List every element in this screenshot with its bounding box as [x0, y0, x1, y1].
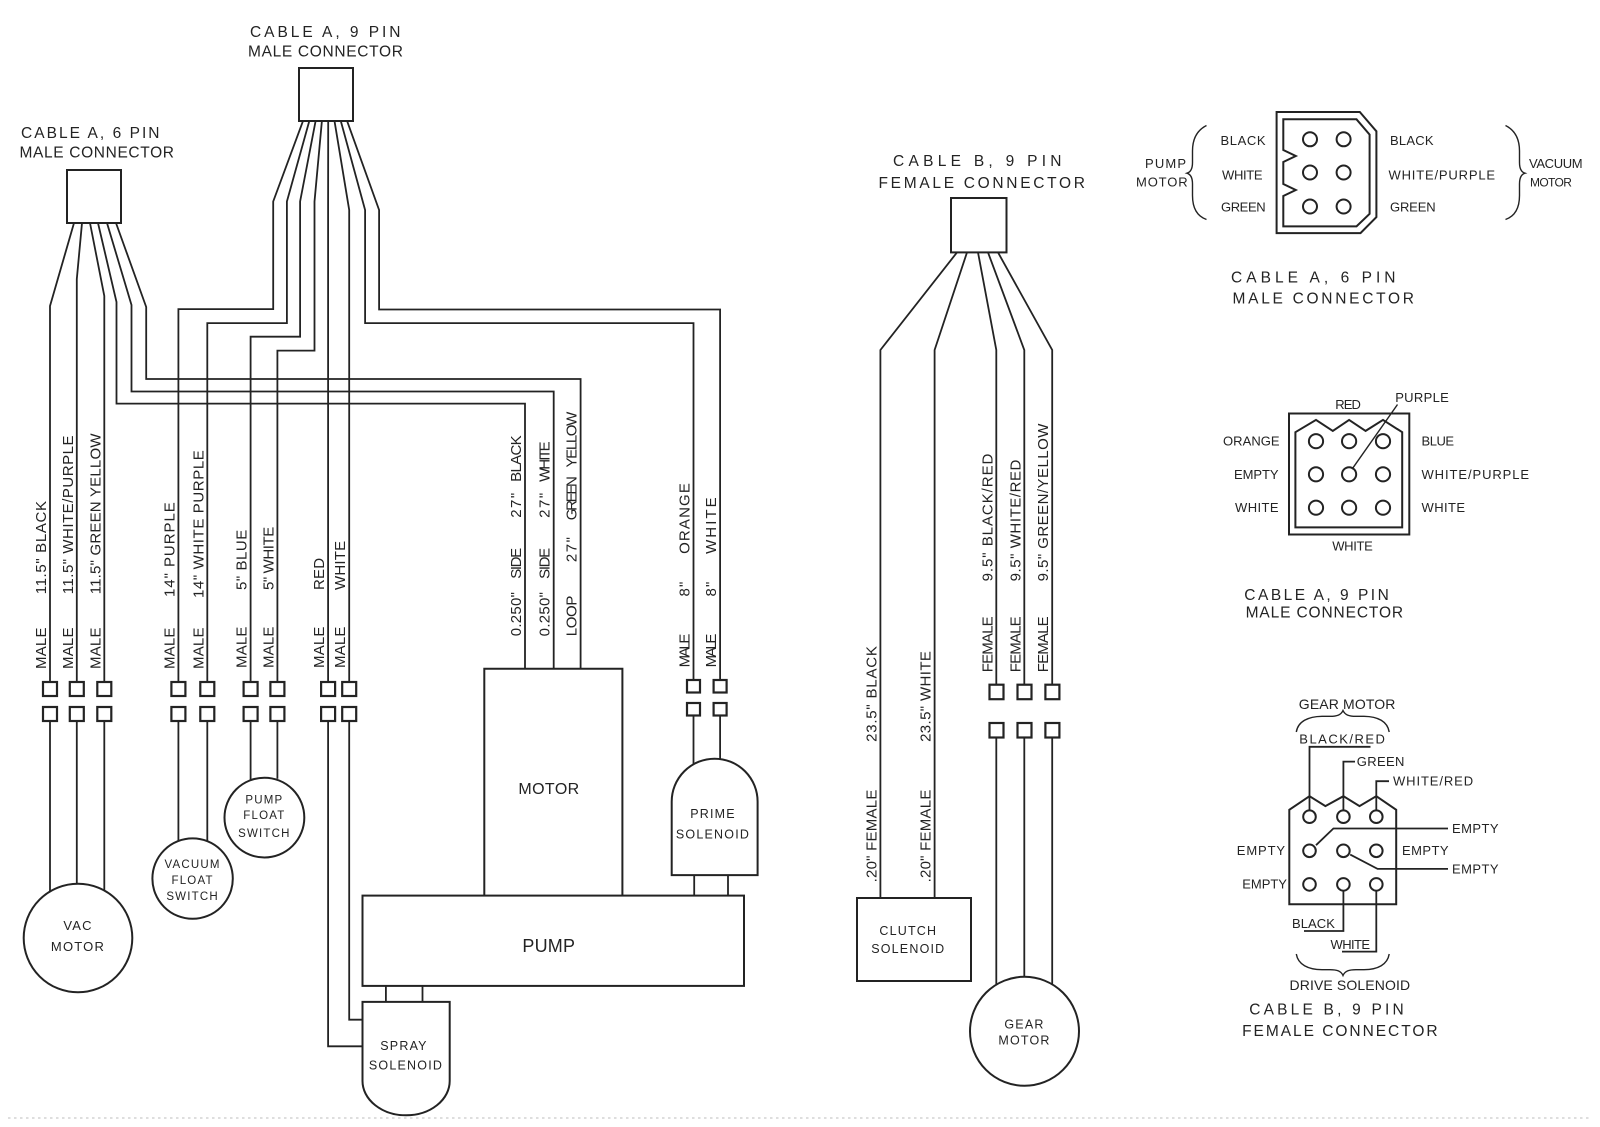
- pin C2: [1337, 810, 1350, 823]
- wire 14" WHITE PURPLE (J2 to VACUUM FLOAT SWITCH): [190, 121, 309, 841]
- connector J3: Cable B 9-pin female (plug symbol): [951, 198, 1007, 252]
- svg-text:MALE: MALE: [60, 627, 77, 669]
- wire WHITE (J2 to SPRAY SOLENOID): [332, 121, 362, 1020]
- svg-text:PUMP: PUMP: [522, 936, 575, 956]
- svg-text:.20" FEMALE: .20" FEMALE: [918, 788, 935, 882]
- svg-text:11.5" BLACK: 11.5" BLACK: [33, 500, 50, 595]
- stub wires PUMP to SPRAY SOLENOID: [386, 986, 423, 1002]
- svg-text:9.5" BLACK/RED: 9.5" BLACK/RED: [979, 452, 996, 581]
- GEAR MOTOR (circle): [970, 977, 1079, 1086]
- svg-text:BLACK: BLACK: [1221, 133, 1268, 148]
- right pin labels: [1389, 133, 1497, 215]
- pin B3: [1376, 434, 1390, 448]
- pin B1: [1309, 434, 1323, 448]
- svg-text:RED: RED: [311, 558, 328, 590]
- brace gear motor group (points up): [1296, 711, 1389, 733]
- pin C6: [1370, 845, 1383, 858]
- wire from J1 to MOTOR LOOP 27" GREEN YELLOW: [116, 223, 581, 669]
- svg-text:BLACK: BLACK: [1390, 133, 1435, 148]
- stub wires PRIME SOLENOID to PUMP: [694, 875, 728, 896]
- pin B9: [1376, 501, 1390, 515]
- pin B8: [1342, 501, 1356, 515]
- svg-text:WHITE: WHITE: [1422, 500, 1467, 515]
- svg-text:WHITE: WHITE: [332, 541, 349, 590]
- svg-text:PUMP: PUMP: [1145, 156, 1188, 171]
- caption: CABLE B 9 PIN FEMALE CONNECTOR: [1242, 1002, 1439, 1041]
- svg-text:WHITE: WHITE: [703, 497, 720, 554]
- svg-text:SIDE: SIDE: [508, 548, 525, 579]
- svg-text:23.5" BLACK: 23.5" BLACK: [863, 645, 880, 742]
- svg-text:BLUE: BLUE: [1422, 434, 1456, 449]
- title: CABLE B 9 PIN FEMALE CONNECTOR: [879, 153, 1087, 192]
- svg-text:MALE: MALE: [332, 626, 349, 668]
- right pin labels: [1422, 434, 1531, 516]
- svg-text:FLOAT: FLOAT: [243, 810, 285, 822]
- VAC MOTOR (circle): [24, 884, 133, 993]
- svg-text:EMPTY: EMPTY: [1402, 843, 1450, 858]
- svg-text:MALE: MALE: [234, 626, 251, 668]
- svg-text:5" WHITE: 5" WHITE: [260, 526, 277, 591]
- svg-text:MALE: MALE: [260, 626, 277, 668]
- svg-text:8": 8": [677, 581, 694, 597]
- svg-text:WHITE/RED: WHITE/RED: [1393, 774, 1475, 789]
- svg-text:27": 27": [508, 493, 525, 518]
- svg-text:9.5" WHITE/RED: 9.5" WHITE/RED: [1007, 458, 1024, 581]
- SPRAY SOLENOID (dome): [363, 1002, 450, 1115]
- svg-text:WHITE/PURPLE: WHITE/PURPLE: [1389, 168, 1497, 183]
- svg-text:CABLE B, 9 PIN: CABLE B, 9 PIN: [893, 153, 1063, 170]
- svg-text:14" PURPLE: 14" PURPLE: [161, 501, 178, 597]
- svg-text:CABLE A, 9 PIN: CABLE A, 9 PIN: [1244, 587, 1390, 604]
- svg-text:CABLE A, 6 PIN: CABLE A, 6 PIN: [21, 125, 161, 142]
- svg-text:WHITE: WHITE: [537, 441, 554, 482]
- wire BLACK/RED to pin C1: [1299, 732, 1386, 811]
- wire WHITE/RED to pin C3: [1376, 774, 1474, 811]
- svg-text:DRIVE SOLENOID: DRIVE SOLENOID: [1290, 977, 1412, 993]
- svg-text:VAC: VAC: [63, 918, 92, 933]
- pin B4: [1309, 467, 1323, 481]
- pin A4: [1337, 166, 1351, 180]
- connector body outline (inner with zigzag key edge): [1295, 420, 1402, 528]
- svg-text:FEMALE: FEMALE: [1007, 615, 1024, 672]
- svg-text:BLACK: BLACK: [508, 435, 525, 482]
- wire 14" PURPLE (J2 to VACUUM FLOAT SWITCH): [161, 121, 303, 841]
- svg-text:GEAR MOTOR: GEAR MOTOR: [1299, 696, 1397, 712]
- label PUMP MOTOR: [1136, 156, 1189, 190]
- svg-text:CABLE A, 6 PIN: CABLE A, 6 PIN: [1231, 270, 1397, 287]
- left pin labels: [1221, 133, 1268, 215]
- pin C4: [1303, 845, 1316, 858]
- brace vacuum motor group: [1506, 126, 1526, 220]
- svg-text:SIDE: SIDE: [537, 548, 554, 579]
- svg-text:BLACK/RED: BLACK/RED: [1299, 732, 1386, 747]
- PUMP (box): [363, 896, 745, 986]
- wire RED (J2 to SPRAY SOLENOID): [311, 121, 362, 1046]
- pin C9: [1370, 878, 1383, 891]
- svg-text:MALE CONNECTOR: MALE CONNECTOR: [248, 44, 405, 61]
- svg-text:GREEN: GREEN: [564, 476, 581, 520]
- pin B7: [1309, 501, 1323, 515]
- wire from J1 to MOTOR 0.250" SIDE 27" WHITE: [107, 223, 554, 669]
- wire 23.5" WHITE (J3 to CLUTCH SOLENOID): [918, 252, 967, 898]
- svg-text:MALE CONNECTOR: MALE CONNECTOR: [20, 145, 176, 162]
- svg-text:GREEN: GREEN: [1357, 754, 1406, 769]
- svg-text:BLACK: BLACK: [1292, 916, 1336, 931]
- wire from J1 to MOTOR 0.250" SIDE 27" BLACK: [98, 223, 525, 669]
- svg-text:EMPTY: EMPTY: [1452, 821, 1500, 836]
- caption: CABLE A 6 PIN MALE CONNECTOR: [1231, 270, 1416, 308]
- svg-text:WHITE: WHITE: [1222, 168, 1264, 183]
- svg-text:MOTOR: MOTOR: [1136, 175, 1189, 190]
- pin C5: [1337, 845, 1350, 858]
- leader EMPTY from pin C4: [1316, 821, 1500, 845]
- svg-text:5" BLUE: 5" BLUE: [234, 529, 251, 591]
- svg-text:MALE CONNECTOR: MALE CONNECTOR: [1233, 291, 1416, 308]
- wire 9.5" BLACK/RED (J3 to GEAR MOTOR): [978, 252, 1004, 984]
- svg-text:9.5" GREEN/YELLOW: 9.5" GREEN/YELLOW: [1035, 422, 1052, 581]
- svg-text:VACUUM: VACUUM: [1529, 156, 1584, 171]
- pin B5: [1342, 467, 1356, 481]
- svg-text:MOTOR: MOTOR: [51, 939, 105, 954]
- svg-text:11.5" WHITE/PURPLE: 11.5" WHITE/PURPLE: [60, 434, 77, 594]
- wire 8" WHITE (J2 to PRIME SOLENOID): [347, 121, 726, 760]
- wire 9.5" WHITE/RED (J3 to GEAR MOTOR): [988, 252, 1032, 976]
- svg-text:PUMP: PUMP: [245, 795, 283, 807]
- svg-text:11.5" GREEN YELLOW: 11.5" GREEN YELLOW: [87, 432, 104, 594]
- pin C3: [1370, 810, 1383, 823]
- title: CABLE A 6 PIN MALE CONNECTOR: [20, 125, 176, 162]
- svg-text:WHITE/PURPLE: WHITE/PURPLE: [1422, 467, 1531, 482]
- svg-text:14" WHITE PURPLE: 14" WHITE PURPLE: [190, 449, 207, 598]
- svg-text:MALE: MALE: [33, 627, 50, 669]
- wire 11.5" WHITE/PURPLE (J1 to VAC MOTOR): [60, 223, 84, 885]
- svg-text:FEMALE: FEMALE: [979, 615, 996, 672]
- svg-text:EMPTY: EMPTY: [1234, 467, 1280, 482]
- svg-text:RED: RED: [1335, 397, 1362, 412]
- svg-text:EMPTY: EMPTY: [1237, 843, 1287, 858]
- wire 11.5" BLACK (J1 to VAC MOTOR): [33, 223, 74, 892]
- connector body outline (outer): [1289, 414, 1409, 535]
- svg-text:PRIME: PRIME: [690, 807, 736, 821]
- brace drive solenoid group (points down): [1296, 954, 1389, 976]
- pin A1: [1303, 132, 1317, 146]
- wire GREEN to pin C2: [1343, 754, 1405, 811]
- svg-text:CABLE A, 9 PIN: CABLE A, 9 PIN: [250, 24, 402, 41]
- left pin labels: [1223, 434, 1281, 516]
- wire 8" ORANGE (J2 to PRIME SOLENOID): [341, 121, 700, 764]
- svg-text:FEMALE CONNECTOR: FEMALE CONNECTOR: [879, 175, 1087, 192]
- connector J1: Cable A 6-pin male (plug symbol): [67, 170, 121, 223]
- svg-text:MALE: MALE: [87, 627, 104, 669]
- svg-text:EMPTY: EMPTY: [1452, 861, 1500, 876]
- svg-text:0.250": 0.250": [537, 591, 554, 637]
- svg-text:SOLENOID: SOLENOID: [676, 828, 750, 842]
- title: CABLE A 9 PIN MALE CONNECTOR: [248, 24, 405, 61]
- leader EMPTY from pin C5: [1350, 855, 1500, 877]
- svg-text:EMPTY: EMPTY: [1242, 877, 1288, 892]
- svg-text:CABLE B, 9 PIN: CABLE B, 9 PIN: [1249, 1002, 1405, 1019]
- caption: CABLE A 9 PIN MALE CONNECTOR: [1244, 587, 1404, 622]
- svg-text:VACUUM: VACUUM: [165, 859, 221, 871]
- pin C1: [1303, 810, 1316, 823]
- connector body outline (inner with key notches): [1283, 119, 1369, 226]
- pin C8: [1337, 878, 1350, 891]
- svg-text:WHITE: WHITE: [1235, 500, 1280, 515]
- svg-text:SWITCH: SWITCH: [238, 828, 291, 840]
- wire 5" WHITE (J2 to PUMP FLOAT SWITCH): [260, 121, 322, 779]
- svg-text:SOLENOID: SOLENOID: [871, 942, 945, 956]
- pin A6: [1337, 200, 1351, 214]
- svg-text:WHITE: WHITE: [1331, 937, 1372, 952]
- svg-text:LOOP: LOOP: [564, 594, 581, 636]
- connector J2: Cable A 9-pin male (plug symbol): [299, 68, 353, 121]
- label VACUUM MOTOR: [1529, 156, 1584, 190]
- MOTOR (box): [484, 669, 622, 896]
- svg-text:27": 27": [564, 537, 581, 562]
- svg-text:CLUTCH: CLUTCH: [879, 924, 937, 938]
- wire 9.5" GREEN/YELLOW (J3 to GEAR MOTOR): [998, 252, 1059, 984]
- svg-text:MALE: MALE: [311, 626, 328, 668]
- svg-text:FLOAT: FLOAT: [171, 875, 213, 887]
- svg-text:MALE CONNECTOR: MALE CONNECTOR: [1246, 605, 1405, 622]
- pin B6: [1376, 467, 1390, 481]
- PUMP FLOAT SWITCH (circle): [225, 778, 305, 858]
- svg-text:SOLENOID: SOLENOID: [369, 1059, 443, 1073]
- svg-text:PURPLE: PURPLE: [1395, 390, 1450, 405]
- svg-text:8": 8": [703, 581, 720, 597]
- pin A2: [1337, 132, 1351, 146]
- brace pump motor group: [1187, 126, 1207, 220]
- svg-text:MALE: MALE: [703, 632, 720, 667]
- svg-text:FEMALE: FEMALE: [1035, 615, 1052, 672]
- svg-text:.20" FEMALE: .20" FEMALE: [863, 788, 880, 882]
- svg-text:MOTOR: MOTOR: [998, 1034, 1050, 1048]
- PRIME SOLENOID (dome): [672, 759, 758, 875]
- svg-text:YELLOW: YELLOW: [564, 411, 581, 468]
- svg-text:MALE: MALE: [190, 627, 207, 669]
- wire 23.5" BLACK (J3 to CLUTCH SOLENOID): [863, 252, 957, 898]
- wire BLACK from pin C8: [1292, 891, 1343, 931]
- svg-text:0.250": 0.250": [508, 591, 525, 637]
- svg-text:SPRAY: SPRAY: [380, 1039, 427, 1053]
- svg-text:SWITCH: SWITCH: [166, 891, 219, 903]
- VACUUM FLOAT SWITCH (circle): [152, 838, 232, 918]
- wire WHITE from pin C9: [1331, 891, 1377, 952]
- connector body outline with zigzag top: [1289, 796, 1396, 904]
- pin A5: [1303, 200, 1317, 214]
- svg-text:ORANGE: ORANGE: [677, 483, 694, 554]
- pin B2: [1342, 434, 1356, 448]
- label PURPLE with leader line to center pin: [1352, 390, 1450, 469]
- svg-text:WHITE: WHITE: [1332, 539, 1374, 554]
- wire 11.5" GREEN YELLOW (J1 to VAC MOTOR): [87, 223, 111, 890]
- svg-text:MOTOR: MOTOR: [518, 781, 579, 798]
- pin C7: [1303, 878, 1316, 891]
- svg-text:FEMALE CONNECTOR: FEMALE CONNECTOR: [1242, 1023, 1439, 1040]
- connector body outline (outer): [1277, 112, 1377, 233]
- svg-text:23.5" WHITE: 23.5" WHITE: [918, 650, 935, 742]
- wire 5" BLUE (J2 to PUMP FLOAT SWITCH): [234, 121, 316, 780]
- svg-text:GREEN: GREEN: [1390, 200, 1437, 215]
- svg-text:MALE: MALE: [161, 627, 178, 669]
- svg-text:GREEN: GREEN: [1221, 200, 1267, 215]
- svg-text:MOTOR: MOTOR: [1530, 176, 1573, 190]
- svg-text:27": 27": [537, 493, 554, 518]
- pin A3: [1303, 166, 1317, 180]
- svg-text:MALE: MALE: [677, 632, 694, 667]
- CLUTCH SOLENOID (box): [857, 898, 971, 981]
- svg-text:GEAR: GEAR: [1004, 1018, 1044, 1032]
- svg-text:ORANGE: ORANGE: [1223, 434, 1281, 449]
